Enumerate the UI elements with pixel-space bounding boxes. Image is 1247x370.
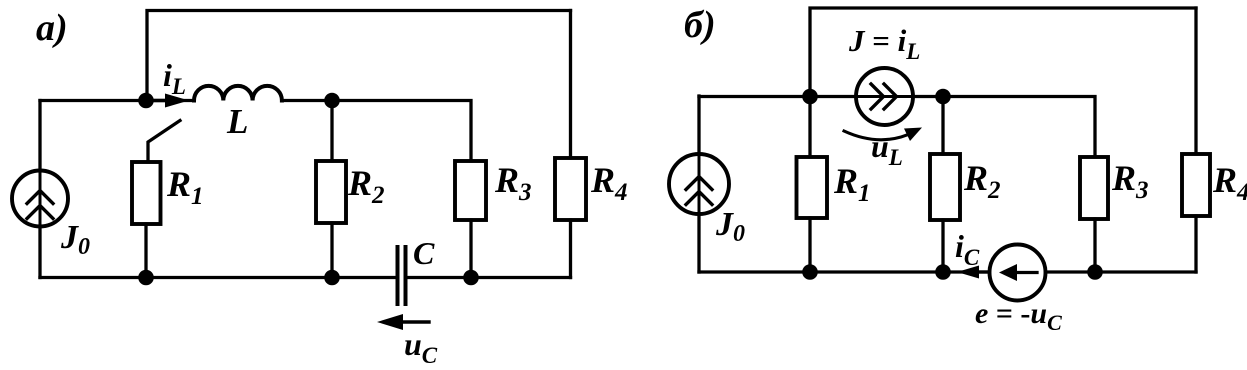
wire R1 top circuit b <box>808 97 811 158</box>
node B1 top of R1 circuit b <box>802 89 818 105</box>
wire bottom rail right circuit a <box>406 276 571 279</box>
wire R2 bottom circuit b <box>941 220 944 272</box>
svg-text:б): б) <box>684 4 716 46</box>
current source J0 circuit a <box>12 171 68 227</box>
wire R1 bottom circuit a <box>144 224 147 278</box>
resistor R4 circuit a <box>555 158 586 220</box>
wire bottom rail left circuit a <box>40 276 398 279</box>
wire from J0 down to bottom rail circuit b <box>697 214 700 272</box>
switch blade to R1 circuit a <box>148 121 180 163</box>
node B2 top of R2 circuit b <box>935 89 951 105</box>
wire left branch circuit b <box>697 96 700 154</box>
node A2 top of R2 circuit a <box>324 93 340 109</box>
resistor R3 circuit a <box>455 161 486 220</box>
wire R2 top circuit b <box>941 97 944 155</box>
inductor L circuit a <box>194 86 282 101</box>
resistor R1 circuit b <box>797 157 828 218</box>
arrow uL curved circuit b <box>844 131 914 140</box>
svg-text:R3: R3 <box>1111 158 1149 204</box>
wire top loop circuit b <box>810 8 1196 96</box>
wire R3 bottom circuit b <box>1093 219 1096 272</box>
wire R4 top circuit a <box>569 11 572 159</box>
wire R4 top circuit b <box>1194 8 1197 154</box>
node A5 bottom of R2 circuit a <box>324 270 340 286</box>
svg-text:R1: R1 <box>166 164 204 210</box>
svg-text:J0: J0 <box>60 219 90 260</box>
wire R4 bottom circuit a <box>569 220 572 278</box>
wire J=iL to R2 top circuit b <box>913 95 943 98</box>
resistor R2 circuit a <box>316 161 346 223</box>
current source J=iL circuit b <box>856 68 913 125</box>
arrow iL circuit a <box>152 99 172 102</box>
wire from inductor to R3 top corner circuit a <box>282 101 471 162</box>
svg-text:iL: iL <box>163 57 186 99</box>
resistor R4 circuit b <box>1182 154 1210 216</box>
svg-text:R1: R1 <box>833 161 871 207</box>
resistor R2 circuit b <box>930 154 960 220</box>
wire from J0 down to bottom rail circuit a <box>38 227 41 278</box>
svg-text:uL: uL <box>871 128 903 170</box>
node B4 bottom of R2 circuit b <box>935 264 951 280</box>
node A1 top of R1 circuit a <box>138 93 154 109</box>
svg-text:J0: J0 <box>715 206 745 247</box>
node A4 bottom of R1 circuit a <box>138 270 154 286</box>
node B5 bottom of R3 circuit b <box>1087 264 1103 280</box>
wire R1 bottom circuit b <box>808 218 811 272</box>
wire R2 bottom circuit a <box>330 223 333 278</box>
svg-text:J = iL: J = iL <box>848 23 920 64</box>
wire main horizontal circuit b <box>699 95 856 98</box>
svg-text:R4: R4 <box>1212 160 1247 206</box>
svg-text:e = -uC: e = -uC <box>975 297 1062 335</box>
wire left branch circuit a <box>38 101 41 171</box>
wire top loop circuit a <box>147 11 571 101</box>
svg-text:R3: R3 <box>494 160 532 206</box>
arrow ic circuit b <box>974 270 988 273</box>
voltage source e circuit b <box>990 245 1046 301</box>
node B3 bottom of R1 circuit b <box>802 264 818 280</box>
wire R2 top circuit a <box>330 101 333 162</box>
svg-text:а): а) <box>36 7 68 49</box>
svg-text:C: C <box>413 235 435 271</box>
svg-text:R2: R2 <box>347 163 385 209</box>
resistor R3 circuit b <box>1080 157 1108 219</box>
svg-text:R4: R4 <box>590 160 628 206</box>
wire R3 bottom circuit a <box>469 220 472 278</box>
node A6 bottom of R3 circuit a <box>463 270 479 286</box>
svg-text:iC: iC <box>955 228 980 270</box>
current source J0 circuit b <box>669 154 729 214</box>
capacitor C circuit a <box>396 247 400 304</box>
wire main horizontal right circuit b <box>943 97 1095 158</box>
svg-text:uC: uC <box>404 326 438 368</box>
wire main horizontal circuit a <box>40 99 194 102</box>
resistor R1 circuit a <box>132 162 161 224</box>
wire R4 bottom circuit b <box>1194 216 1197 272</box>
svg-text:L: L <box>226 102 248 141</box>
svg-text:R2: R2 <box>963 158 1001 204</box>
arrow uc circuit a <box>396 320 429 323</box>
wire bottom rail left circuit b <box>699 270 990 273</box>
wire bottom rail right circuit b <box>1046 270 1197 273</box>
